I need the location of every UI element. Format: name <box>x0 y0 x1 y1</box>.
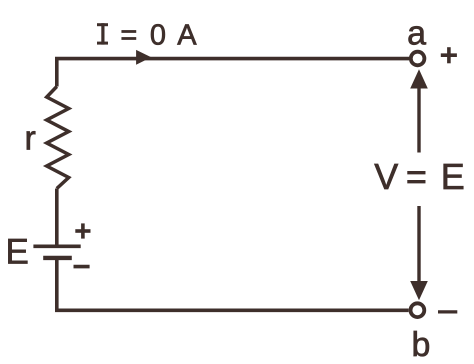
plus polarity at node a <box>441 47 457 63</box>
svg-text:r: r <box>25 120 36 158</box>
resistor r zigzag <box>47 87 69 189</box>
minus polarity at node b <box>438 310 457 313</box>
svg-text:a: a <box>407 14 426 52</box>
label I (serif style, drawn) of I = 0 A <box>97 23 108 44</box>
battery E long positive plate <box>33 245 80 249</box>
battery minus polarity mark <box>74 265 90 269</box>
svg-text:V: V <box>374 156 398 197</box>
current direction arrowhead on top wire <box>136 50 151 65</box>
voltage arrow pointing up to node a <box>410 69 428 152</box>
voltage arrow pointing down to node b <box>410 206 428 300</box>
svg-text:E: E <box>441 156 465 197</box>
svg-text:=: = <box>120 19 137 51</box>
wire: battery to bottom conductor and bottom conductor to node b <box>57 260 409 310</box>
svg-text:E: E <box>6 233 29 272</box>
wire: resistor to battery <box>55 189 59 245</box>
svg-text:A: A <box>177 19 197 51</box>
node a terminal circle <box>411 52 425 66</box>
battery E short negative plate <box>43 256 72 260</box>
svg-text:=: = <box>406 156 427 197</box>
node b terminal circle <box>411 303 425 317</box>
battery plus polarity mark <box>75 223 90 238</box>
label V = E <box>374 156 465 197</box>
label = 0 A <box>120 19 197 51</box>
wire: top conductor from left corner to node a <box>57 59 409 87</box>
svg-text:0: 0 <box>150 19 166 51</box>
svg-text:b: b <box>412 326 431 364</box>
